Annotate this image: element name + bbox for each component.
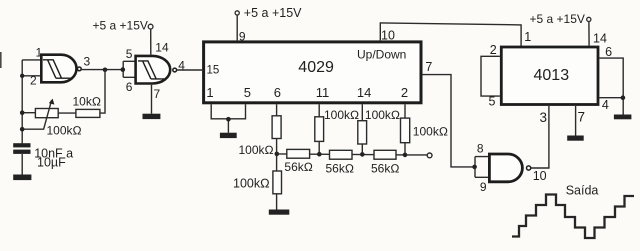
output terminal circle bbox=[427, 153, 432, 158]
wire: 4029 pin10 to 4013 pin1 bbox=[380, 23, 521, 47]
wire: ladder rail bbox=[277, 154, 427, 155]
svg-text:2: 2 bbox=[30, 73, 37, 87]
svg-text:100kΩ: 100kΩ bbox=[413, 125, 448, 139]
wire: pins 1,5 tie bracket bbox=[211, 104, 245, 132]
svg-text:6: 6 bbox=[605, 45, 612, 59]
node: junction pin2 tie bbox=[20, 74, 24, 78]
potentiometer 100kOhm bbox=[35, 99, 81, 138]
wire: 10k to pot bbox=[58, 112, 76, 114]
svg-text:14: 14 bbox=[357, 85, 371, 100]
node: pin6-4 junction bbox=[621, 95, 626, 100]
node: rail junction pin2 bbox=[403, 153, 408, 158]
resistor 56kOhm (2) bbox=[326, 150, 355, 175]
IC U3 4013 bbox=[501, 47, 598, 105]
ground (pins 1,5) bbox=[220, 133, 237, 138]
ground (below C1) bbox=[13, 175, 31, 181]
svg-text:5: 5 bbox=[244, 85, 251, 100]
svg-text:11: 11 bbox=[316, 85, 330, 100]
svg-text:2: 2 bbox=[490, 43, 497, 57]
svg-text:7: 7 bbox=[154, 87, 161, 101]
IC U2 4029 bbox=[204, 42, 421, 103]
svg-text:10kΩ: 10kΩ bbox=[73, 95, 102, 109]
wire: U1b output to 4029 pin15 bbox=[177, 69, 202, 71]
wire: pot left terminal bbox=[22, 112, 35, 114]
node: pins1-5 junction bbox=[226, 117, 231, 122]
resistor 100kOhm (pin11) bbox=[315, 108, 359, 142]
wire: U1b input bracket bbox=[123, 61, 135, 77]
node: U1b input junction bbox=[121, 67, 126, 72]
wire: pin 6 column bbox=[276, 104, 278, 209]
svg-text:+5 a +15V: +5 a +15V bbox=[93, 18, 148, 32]
svg-text:15: 15 bbox=[207, 65, 220, 77]
svg-text:4013: 4013 bbox=[534, 67, 570, 84]
svg-text:9: 9 bbox=[480, 180, 487, 194]
wire: pin 7 to ground bbox=[575, 106, 577, 136]
svg-text:10: 10 bbox=[381, 29, 395, 43]
svg-text:8: 8 bbox=[477, 142, 484, 156]
svg-text:Saída: Saída bbox=[566, 184, 599, 198]
node: U1c input junction bbox=[472, 165, 477, 170]
wire: pin 2 column bbox=[404, 104, 406, 155]
resistor 100kOhm (pin6 upper) bbox=[239, 116, 282, 157]
resistor 100kOhm (pin6 lower) bbox=[233, 171, 282, 194]
wire: pin 14 column bbox=[361, 104, 363, 154]
svg-text:9: 9 bbox=[239, 29, 246, 43]
wire: feedback vertical to 10k bbox=[100, 70, 105, 113]
node: rail junction pin11 bbox=[317, 152, 322, 157]
node: rail junction pin6 bbox=[275, 152, 280, 157]
node: pot terminal junction bbox=[20, 110, 25, 115]
wire: wiper tie bbox=[22, 128, 43, 130]
node: rail junction pin14 bbox=[360, 152, 365, 157]
power terminal +5 a +15V (4013 pin 14) bbox=[530, 12, 591, 45]
svg-text:5: 5 bbox=[126, 47, 133, 61]
svg-text:1: 1 bbox=[206, 85, 213, 100]
wire: 4029 pin7 to U1c input bbox=[422, 75, 473, 167]
gate U1b (Schmitt NAND, pins 5,6 out 4) bbox=[126, 40, 177, 101]
svg-text:56kΩ: 56kΩ bbox=[326, 161, 355, 175]
svg-text:6: 6 bbox=[126, 80, 133, 94]
svg-text:+5 a +15V: +5 a +15V bbox=[530, 12, 585, 26]
svg-text:56kΩ: 56kΩ bbox=[371, 161, 400, 175]
svg-text:14: 14 bbox=[593, 32, 607, 46]
svg-text:1: 1 bbox=[524, 30, 531, 44]
ground (U1b pin 7) bbox=[143, 114, 161, 119]
ground (pin6 ladder) bbox=[269, 210, 290, 215]
ground (pin 7) bbox=[567, 136, 584, 141]
resistor 56kOhm (1) bbox=[284, 149, 313, 174]
svg-text:4: 4 bbox=[602, 98, 609, 112]
svg-text:100kΩ: 100kΩ bbox=[47, 123, 82, 137]
svg-text:7: 7 bbox=[578, 109, 586, 124]
scan artifact left edge bbox=[0, 52, 2, 68]
svg-text:6: 6 bbox=[274, 85, 281, 100]
capacitor C1 10nF a 10uF bbox=[13, 143, 73, 174]
node: wiper tie junction bbox=[20, 127, 25, 132]
svg-text:1: 1 bbox=[36, 45, 43, 59]
svg-text:2: 2 bbox=[401, 85, 408, 100]
gate U1a (Schmitt NAND, pins 1,2 out 3) bbox=[30, 45, 81, 87]
svg-text:100kΩ: 100kΩ bbox=[365, 108, 400, 122]
svg-text:4029: 4029 bbox=[298, 59, 334, 76]
svg-text:100kΩ: 100kΩ bbox=[324, 108, 359, 122]
wire: U1b pin7 to ground bbox=[151, 85, 153, 114]
wire: U1c input bracket bbox=[475, 157, 488, 178]
resistor 100kOhm (pin2) bbox=[401, 118, 449, 143]
svg-text:7: 7 bbox=[425, 60, 432, 74]
power terminal +5 a +15V (gate U1b supply) bbox=[93, 18, 154, 54]
wire: gate U1a input tie vertical bbox=[21, 60, 23, 143]
svg-text:56kΩ: 56kΩ bbox=[284, 160, 313, 174]
resistor 100kOhm (pin14) bbox=[358, 108, 400, 144]
svg-text:10: 10 bbox=[533, 169, 547, 183]
svg-text:3: 3 bbox=[84, 55, 91, 69]
wire: pins 2-5 feedback loop bbox=[481, 56, 500, 96]
ground (pin 4) bbox=[614, 115, 632, 120]
staircase output waveform bbox=[512, 195, 634, 239]
node: feedback junction bbox=[103, 68, 108, 73]
wire: pin 3 to U1c output bbox=[531, 106, 549, 168]
wire: pin 2 stub bbox=[22, 75, 41, 77]
wire: pin 1 stub bbox=[22, 59, 41, 61]
resistor 56kOhm (3) bbox=[371, 150, 400, 175]
wire: pin 11 column bbox=[318, 104, 320, 154]
wire: U1a output to U1b input bbox=[81, 69, 122, 71]
svg-text:5: 5 bbox=[489, 95, 496, 109]
gate U1c (NAND, pins 8,9 out 10) bbox=[477, 142, 547, 194]
svg-text:3: 3 bbox=[540, 110, 548, 125]
svg-text:100kΩ: 100kΩ bbox=[239, 143, 274, 157]
svg-text:14: 14 bbox=[155, 40, 169, 54]
svg-text:Up/Down: Up/Down bbox=[357, 48, 406, 62]
power terminal +5 a +15V (4029 pin 9) bbox=[235, 6, 302, 41]
svg-text:+5 a +15V: +5 a +15V bbox=[244, 6, 302, 20]
svg-text:100kΩ: 100kΩ bbox=[233, 177, 270, 191]
wire: pin 6 to pin 4 tie bbox=[599, 58, 623, 114]
resistor 10kOhm bbox=[73, 95, 102, 118]
svg-text:10µF: 10µF bbox=[37, 156, 66, 170]
